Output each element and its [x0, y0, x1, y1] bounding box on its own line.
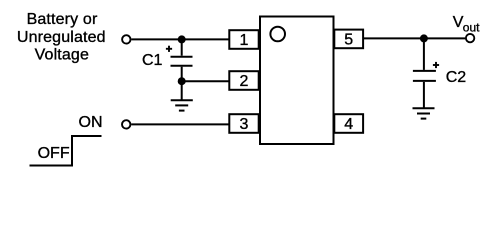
- svg-text:Voltage: Voltage: [35, 46, 89, 63]
- junction: output node: [420, 34, 428, 42]
- input terminal: [122, 35, 130, 43]
- svg-text:2: 2: [240, 73, 249, 90]
- ground (C2): [413, 108, 435, 118]
- junction: C1/pin2 ground node: [178, 77, 186, 85]
- svg-text:4: 4: [344, 116, 353, 133]
- on/off step waveform symbol: [30, 136, 102, 166]
- wire: output node down to C2: [423, 38, 425, 70]
- Vout terminal: [466, 34, 474, 42]
- capacitor C2: [413, 71, 436, 81]
- svg-text:Unregulated: Unregulated: [17, 29, 106, 46]
- wire: pin 5 to Vout terminal: [364, 37, 466, 39]
- wire: ground node to pin 2: [182, 80, 229, 82]
- wire: C1 to ground node: [181, 67, 183, 100]
- pin 2: [229, 71, 258, 90]
- C1 polarity +: [166, 46, 172, 52]
- svg-text:1: 1: [240, 32, 249, 49]
- on/off terminal: [122, 120, 130, 128]
- junction: input node: [178, 35, 186, 43]
- pin 5: [334, 30, 363, 49]
- node Vout label: [453, 14, 480, 34]
- capacitor C1: [171, 57, 193, 66]
- ground (C1): [171, 100, 193, 110]
- svg-text:OFF: OFF: [38, 145, 70, 162]
- wire: input terminal to pin 1: [131, 38, 229, 40]
- wire: on/off terminal to pin 3: [131, 123, 229, 125]
- pin 1: [229, 30, 258, 49]
- svg-text:5: 5: [344, 32, 353, 49]
- pin 1 indicator dot: [270, 27, 285, 42]
- wire: C2 to ground: [423, 82, 425, 108]
- input voltage label: [17, 11, 106, 63]
- svg-text:C2: C2: [446, 69, 467, 86]
- svg-text:3: 3: [240, 116, 249, 133]
- pin 3: [229, 114, 258, 133]
- svg-text:out: out: [463, 20, 480, 34]
- svg-text:C1: C1: [142, 52, 163, 69]
- IC U1 body: [260, 17, 334, 145]
- pin 4: [334, 114, 363, 133]
- wire: input node down to C1: [181, 39, 183, 55]
- C2 polarity +: [433, 62, 439, 68]
- svg-text:Battery or: Battery or: [27, 11, 98, 28]
- svg-text:ON: ON: [79, 114, 103, 131]
